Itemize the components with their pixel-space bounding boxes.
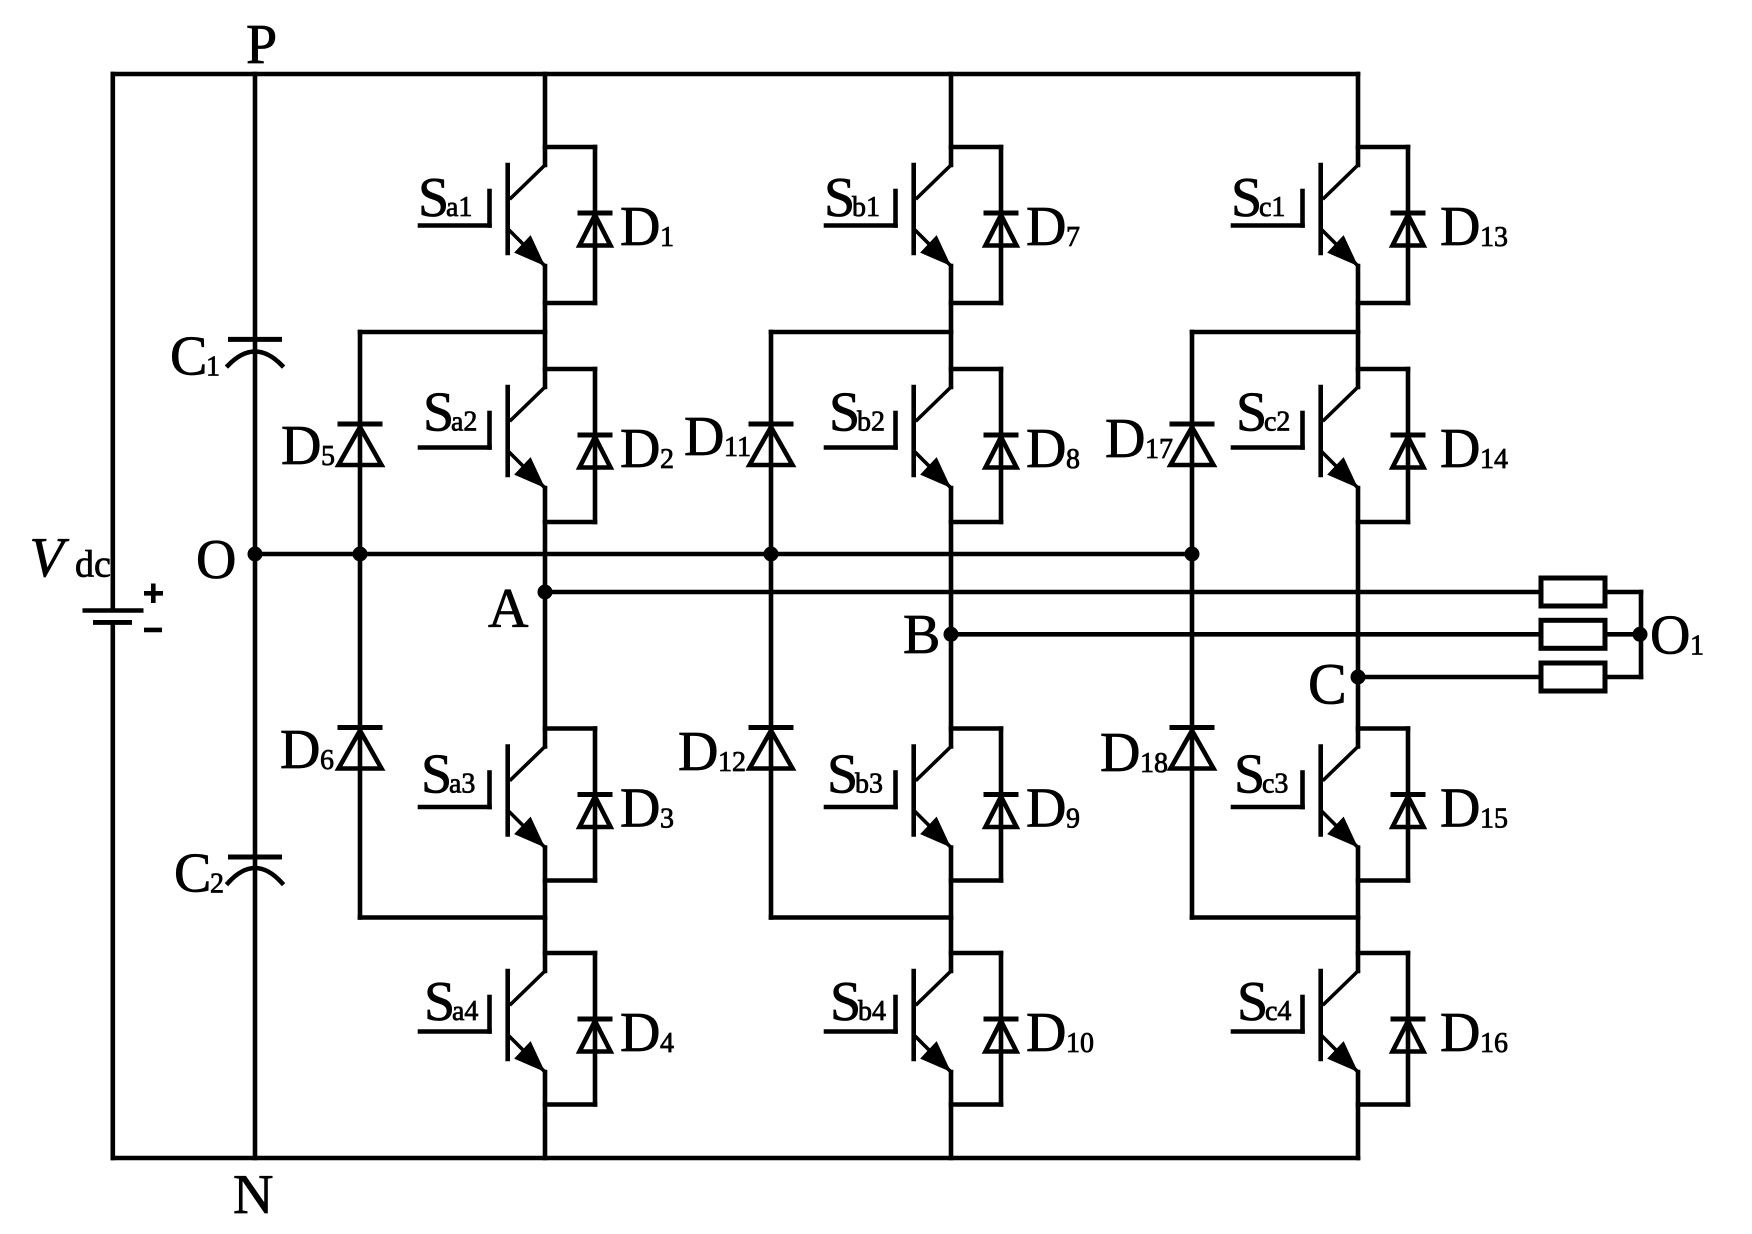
svg-text:V: V [30, 527, 70, 589]
svg-text:A: A [488, 578, 529, 640]
svg-text:a2: a2 [451, 407, 477, 438]
svg-text:D: D [1026, 778, 1066, 840]
svg-text:P: P [246, 14, 277, 76]
svg-text:17: 17 [1145, 434, 1173, 465]
svg-text:S: S [1234, 744, 1265, 806]
svg-text:S: S [1231, 167, 1262, 229]
svg-text:b3: b3 [855, 769, 883, 800]
svg-text:c4: c4 [1265, 996, 1291, 1027]
svg-text:2: 2 [210, 869, 224, 900]
svg-text:1: 1 [1690, 631, 1704, 662]
svg-text:B: B [903, 604, 940, 666]
svg-text:12: 12 [718, 747, 746, 778]
svg-text:6: 6 [320, 745, 334, 776]
svg-text:5: 5 [321, 441, 335, 472]
svg-text:O: O [196, 529, 236, 591]
svg-text:O: O [1650, 605, 1690, 667]
svg-text:S: S [824, 167, 855, 229]
svg-text:S: S [424, 971, 455, 1033]
svg-text:D: D [281, 415, 321, 477]
svg-text:S: S [418, 167, 449, 229]
svg-text:10: 10 [1066, 1028, 1094, 1059]
svg-text:S: S [1237, 971, 1268, 1033]
svg-text:9: 9 [1066, 804, 1080, 835]
svg-text:2: 2 [660, 444, 674, 475]
svg-text:c2: c2 [1264, 407, 1290, 438]
svg-text:1: 1 [206, 352, 220, 383]
svg-text:16: 16 [1480, 1028, 1508, 1059]
svg-text:D: D [620, 1002, 660, 1064]
svg-text:D: D [1440, 196, 1480, 258]
svg-text:3: 3 [660, 804, 674, 835]
svg-text:D: D [620, 418, 660, 480]
svg-text:15: 15 [1480, 804, 1508, 835]
svg-text:7: 7 [1066, 222, 1080, 253]
svg-text:S: S [423, 382, 454, 444]
svg-text:N: N [233, 1164, 273, 1226]
svg-text:C: C [170, 326, 207, 388]
svg-text:D: D [678, 721, 718, 783]
svg-text:a1: a1 [446, 192, 472, 223]
svg-text:b2: b2 [857, 407, 885, 438]
svg-text:S: S [827, 744, 858, 806]
svg-text:D: D [1440, 1002, 1480, 1064]
svg-text:D: D [620, 778, 660, 840]
svg-text:b4: b4 [858, 996, 886, 1027]
svg-text:S: S [830, 971, 861, 1033]
svg-text:b1: b1 [852, 192, 880, 223]
svg-text:4: 4 [660, 1028, 674, 1059]
svg-text:a4: a4 [452, 996, 478, 1027]
svg-text:14: 14 [1480, 444, 1508, 475]
svg-text:D: D [684, 406, 724, 468]
svg-text:1: 1 [660, 222, 674, 253]
svg-text:a3: a3 [449, 769, 475, 800]
svg-text:D: D [620, 196, 660, 258]
svg-text:S: S [421, 744, 452, 806]
svg-text:D: D [1026, 1002, 1066, 1064]
svg-text:D: D [1105, 408, 1145, 470]
svg-text:S: S [829, 382, 860, 444]
svg-text:11: 11 [724, 432, 751, 463]
svg-text:D: D [1440, 418, 1480, 480]
svg-text:D: D [280, 719, 320, 781]
svg-text:C: C [1308, 652, 1347, 717]
svg-text:8: 8 [1066, 444, 1080, 475]
svg-text:18: 18 [1140, 748, 1168, 779]
svg-text:c3: c3 [1262, 769, 1288, 800]
svg-text:S: S [1236, 382, 1267, 444]
svg-text:D: D [1026, 196, 1066, 258]
svg-text:13: 13 [1480, 222, 1508, 253]
svg-text:D: D [1440, 778, 1480, 840]
svg-text:C: C [174, 843, 211, 905]
svg-text:c1: c1 [1259, 192, 1285, 223]
svg-text:D: D [1100, 722, 1140, 784]
svg-text:D: D [1026, 418, 1066, 480]
svg-text:dc: dc [75, 544, 111, 586]
